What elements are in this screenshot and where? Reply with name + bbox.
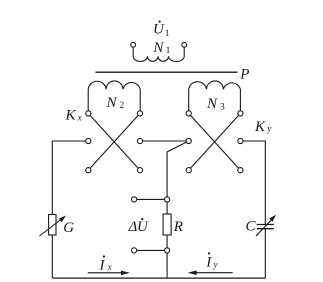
svg-text:Δ: Δ xyxy=(128,219,138,235)
svg-text:U: U xyxy=(153,22,165,38)
svg-text:3: 3 xyxy=(220,102,225,112)
inductor N3 winding xyxy=(189,81,241,111)
svg-text:I: I xyxy=(205,255,212,271)
node: N1 left terminal xyxy=(131,42,136,47)
node: Ky top-left xyxy=(186,111,191,116)
wire: upper tap stub xyxy=(134,198,167,200)
wire: centre branch node to R xyxy=(166,199,168,214)
svg-text:R: R xyxy=(173,219,183,235)
label U1 (phasor) xyxy=(153,21,170,40)
label N3 xyxy=(206,96,225,112)
wire: R to lower node xyxy=(166,235,168,250)
svg-text:C: C xyxy=(246,219,257,235)
switch Ky cross wire (top-right to bottom-left) xyxy=(189,113,241,170)
node: Ky middle-right xyxy=(238,138,243,143)
svg-text:I: I xyxy=(99,258,106,274)
wire: Kx middle-left to left rail xyxy=(52,141,88,215)
svg-text:G: G xyxy=(63,220,74,236)
capacitor C plates xyxy=(257,224,274,226)
svg-text:x: x xyxy=(107,262,112,272)
switch Ky cross wire (top-left to bottom-right) xyxy=(189,113,241,170)
svg-text:1: 1 xyxy=(166,46,171,56)
svg-text:N: N xyxy=(206,96,218,112)
switch Kx cross wire (top-right to bottom-left) xyxy=(88,113,140,170)
wire: bottom wire xyxy=(52,277,265,279)
svg-text:x: x xyxy=(77,112,82,122)
node: Kx middle-left xyxy=(86,138,91,143)
node: Kx bottom-left xyxy=(86,168,91,173)
wire: Kx middle-right to Ky middle-left xyxy=(140,140,189,142)
switch Kx cross wire (top-left to bottom-right) xyxy=(88,113,140,170)
label Kx xyxy=(65,108,82,124)
wire: P line (core bar) xyxy=(96,71,238,73)
resistor R body xyxy=(163,214,171,235)
node: N1 right terminal xyxy=(182,42,187,47)
label N2 xyxy=(106,95,125,111)
wire: tap diagonal from Ky middle-left down to centre branch xyxy=(167,141,189,199)
node: Ky top-right xyxy=(238,111,243,116)
node: Ky bottom-right xyxy=(238,168,243,173)
svg-text:N: N xyxy=(152,40,164,56)
wire: Ky middle-right to right rail xyxy=(240,141,265,224)
svg-text:N: N xyxy=(106,95,118,111)
inductor N2 winding xyxy=(88,81,140,111)
resistor G arrow xyxy=(39,218,62,236)
node: lower tap terminal xyxy=(132,248,137,253)
label Iy (phasor) xyxy=(205,252,217,270)
current arrow Iy xyxy=(196,272,233,274)
node: Kx top-right xyxy=(137,111,142,116)
svg-text:K: K xyxy=(254,119,266,135)
resistor G body xyxy=(49,215,56,236)
svg-text:P: P xyxy=(239,67,249,83)
svg-text:U: U xyxy=(137,219,149,235)
svg-text:K: K xyxy=(65,108,77,124)
label N1 xyxy=(152,40,170,56)
node: Kx top-left xyxy=(86,111,91,116)
capacitor C arrow xyxy=(256,218,273,236)
current arrow Ix xyxy=(88,272,123,274)
node: lower tap junction xyxy=(165,248,170,253)
label Ky xyxy=(254,119,271,135)
node: upper tap terminal xyxy=(132,197,137,202)
wire: right rail below C xyxy=(264,229,266,278)
wire: lower node to bottom wire xyxy=(166,250,168,278)
wire: left rail below G xyxy=(51,235,53,278)
inductor N1 winding xyxy=(133,47,184,61)
label Ix (phasor) xyxy=(99,255,112,273)
node: Ky bottom-left xyxy=(186,168,191,173)
svg-text:y: y xyxy=(266,124,271,134)
svg-text:1: 1 xyxy=(165,29,170,39)
svg-text:2: 2 xyxy=(120,101,125,111)
node: Kx bottom-right xyxy=(137,168,142,173)
label dU (phasor) xyxy=(128,218,150,235)
wire: lower tap stub xyxy=(134,249,167,251)
svg-text:y: y xyxy=(213,260,218,270)
node: upper tap junction xyxy=(165,197,170,202)
node: Kx middle-right xyxy=(137,138,142,143)
node: Ky middle-left xyxy=(186,138,191,143)
